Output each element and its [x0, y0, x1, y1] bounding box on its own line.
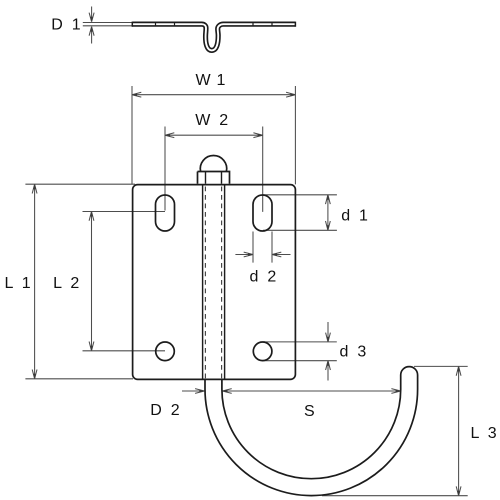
svg-text:D 1: D 1 — [51, 17, 81, 34]
svg-text:D 2: D 2 — [150, 402, 180, 419]
svg-text:d 1: d 1 — [341, 208, 368, 225]
hook — [205, 367, 418, 496]
top view: plate tube with U dip — [132, 24, 295, 50]
right hole — [253, 342, 272, 361]
top view: D1 extension lines — [83, 23, 132, 26]
left hole — [156, 342, 175, 361]
top view: slot edge ticks — [156, 22, 273, 26]
svg-text:W 2: W 2 — [195, 112, 228, 129]
S dimension — [222, 389, 400, 394]
bar solid edges in plate — [203, 186, 225, 379]
d1 dimension — [263, 195, 337, 231]
W2 dimension — [165, 127, 263, 212]
top view: end caps — [132, 22, 295, 27]
svg-text:L 2: L 2 — [53, 275, 79, 292]
svg-text:W 1: W 1 — [196, 72, 226, 89]
d2 dimension — [235, 232, 290, 263]
cap nut hex body — [198, 172, 230, 184]
plate outline — [133, 185, 296, 380]
svg-text:d 3: d 3 — [340, 344, 367, 361]
right slot — [253, 195, 272, 231]
left slot — [156, 195, 175, 231]
svg-text:S: S — [304, 403, 315, 420]
L3 dimension — [322, 366, 468, 495]
L2 dimension — [83, 212, 166, 351]
d3 dimension — [263, 322, 337, 381]
top view: D1 arrows — [89, 7, 94, 44]
W1 dimension — [132, 86, 295, 184]
bar hidden dashed lines — [205, 187, 221, 379]
L1 dimension — [25, 184, 135, 379]
svg-text:L 1: L 1 — [5, 275, 31, 292]
svg-text:d 2: d 2 — [250, 269, 277, 286]
svg-text:L 3: L 3 — [471, 425, 497, 442]
cap nut dome — [200, 156, 226, 172]
D2 dimension — [182, 389, 204, 394]
